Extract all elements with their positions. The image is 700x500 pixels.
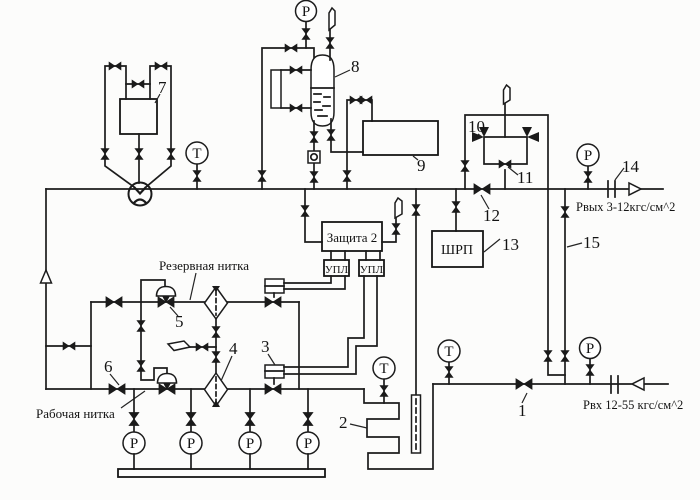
safety valve right	[522, 127, 539, 142]
filter F1 top cap	[212, 286, 220, 292]
leader to bypass	[567, 243, 582, 247]
valve drain upper	[310, 132, 318, 143]
wire: relief center stem	[504, 115, 506, 137]
wire: working line y=389	[46, 388, 364, 390]
orifice box on drain	[308, 151, 320, 163]
svg-text:11: 11	[517, 168, 533, 187]
wire: drop 4 to manifold	[307, 454, 309, 469]
filter F1 inner dashes	[215, 291, 217, 315]
gauge T3	[438, 340, 460, 362]
valve under T2	[380, 386, 388, 397]
valve on drop	[343, 171, 351, 182]
valve on tap	[301, 206, 309, 217]
wire: vertical x=91 reserve to working	[90, 302, 92, 389]
valve gauge drop 2	[186, 413, 196, 426]
valve on riser	[258, 171, 266, 182]
svg-text:Р: Р	[586, 341, 594, 357]
valve upper right bypass	[561, 207, 569, 218]
wire: purge stub y=347	[189, 346, 216, 348]
box UPL right	[359, 260, 384, 276]
valve lower right bypass	[561, 351, 569, 362]
insulating joint 14	[608, 181, 615, 197]
svg-text:Т: Т	[192, 146, 201, 162]
valve upper on filter column	[212, 327, 220, 338]
leader to valve 12	[481, 195, 489, 209]
gauge T2	[373, 357, 395, 379]
svg-text:УПЛ: УПЛ	[325, 264, 349, 276]
wire: left riser from outlet header down to working line	[45, 189, 47, 389]
svg-text:4: 4	[229, 339, 238, 358]
leader to 5	[170, 307, 178, 316]
svg-text:Рвх 12-55 кгс/см^2: Рвх 12-55 кгс/см^2	[583, 398, 683, 412]
regulator 5 dome	[157, 287, 176, 304]
insulating joint inlet	[611, 376, 618, 393]
svg-text:Т: Т	[444, 344, 453, 360]
regulator 5 valve body	[158, 297, 174, 307]
actuator box on reserve shutoff	[265, 279, 284, 297]
valve 1 on inlet	[516, 379, 532, 389]
wire: drop 3 to manifold	[249, 454, 251, 469]
wire: relief loop	[484, 137, 527, 189]
leader to reserve line	[190, 273, 196, 300]
relief vent candle	[504, 85, 511, 104]
shutoff valve on reserve line (UPL)	[265, 297, 281, 307]
svg-text:1: 1	[518, 401, 527, 420]
valve top-right of box7	[155, 62, 167, 70]
valve 12 on header	[474, 184, 490, 194]
wire: box7 left branch	[105, 66, 134, 187]
valve on center drop	[135, 149, 143, 160]
gauge P manifold 4	[297, 432, 319, 454]
valve on crossover	[63, 342, 75, 350]
valve lower on pilot drop	[137, 361, 145, 372]
wire: tap to Zashchita box	[305, 189, 322, 242]
svg-text:Рабочая нитка: Рабочая нитка	[36, 406, 115, 421]
wire: stubs Zashchita to UPL left	[331, 251, 345, 260]
wire: inlet header y=384	[433, 383, 631, 385]
wire: column between filters x=216	[215, 319, 217, 374]
node: flow arrow up on left riser	[41, 270, 52, 283]
gauge P outlet stem	[587, 166, 589, 189]
filter F1 diamond on reserve line	[205, 287, 228, 319]
gauge P vessel	[296, 1, 317, 22]
vessel vent stem	[329, 30, 331, 60]
wire: bypass right x=565	[564, 189, 566, 384]
valve on vessel top line	[285, 44, 297, 52]
gauge T1 stem	[196, 164, 198, 189]
leader to working line	[121, 391, 145, 408]
wire: bypass left x=548	[548, 189, 565, 375]
svg-text:Р: Р	[187, 436, 195, 452]
svg-text:6: 6	[104, 357, 113, 376]
valve left drop of box7	[101, 149, 109, 160]
box 7	[120, 99, 157, 134]
wire: gauge drop 1	[133, 389, 135, 432]
gauge P manifold 2	[180, 432, 202, 454]
valve under T3	[445, 367, 453, 378]
wire: box7 center drop	[138, 134, 140, 183]
svg-text:Р: Р	[246, 436, 254, 452]
gauge P inlet	[580, 338, 601, 359]
svg-text:Защита 2: Защита 2	[327, 230, 378, 245]
box 9	[363, 121, 438, 155]
wire: drop 1 to manifold	[133, 454, 135, 469]
svg-text:8: 8	[351, 57, 360, 76]
meter bottom arch	[134, 200, 147, 204]
wire: relief riser x=465	[465, 115, 548, 189]
gas meter circle on header	[129, 183, 152, 206]
gauge T3 stem	[448, 362, 450, 384]
safety valve left	[472, 127, 489, 142]
vessel liquid dashes	[314, 94, 330, 116]
wire: UPL left cable pair to reserve actuator	[284, 276, 345, 289]
svg-text:Р: Р	[302, 4, 310, 20]
vent candle of vessel	[329, 8, 335, 30]
wire: pilot loop of regulator 5	[141, 280, 165, 302]
svg-text:9: 9	[417, 156, 426, 175]
valve on relief riser	[461, 161, 469, 172]
svg-text:Т: Т	[379, 361, 388, 377]
gauge T1	[186, 142, 208, 164]
leader to box 9	[413, 156, 418, 160]
svg-text:14: 14	[622, 157, 640, 176]
valve gauge drop 3	[245, 413, 255, 426]
relief candle stem	[504, 104, 506, 115]
leader to valve 1	[522, 393, 527, 403]
gauge P manifold 3	[239, 432, 261, 454]
gauge T2 stem	[383, 379, 385, 403]
svg-text:Р: Р	[130, 436, 138, 452]
vessel liquid level	[311, 87, 334, 89]
shutoff valve on working line (3)	[265, 384, 281, 394]
valve 6 on working line	[109, 384, 125, 394]
wire: box7 right branch	[146, 66, 171, 187]
gauge P manifold 1	[123, 432, 145, 454]
level gauge tube	[271, 70, 281, 108]
thermowell dashed axis	[415, 399, 417, 450]
leader to valve 11	[508, 167, 518, 175]
leader to heater	[350, 424, 367, 428]
wire: box7 crossover	[126, 83, 150, 85]
wire: pilot drop x=141 with jog to regulator 6	[141, 302, 167, 380]
bypass valve a	[350, 96, 362, 104]
wire: gauge drop 4	[307, 389, 309, 432]
box UPL left	[324, 260, 349, 276]
wire: reserve right end drop x=299	[298, 302, 300, 389]
svg-text:15: 15	[583, 233, 600, 252]
valve lower left bypass	[544, 351, 552, 362]
svg-text:Резервная нитка: Резервная нитка	[159, 258, 249, 273]
wire: drop to header x=347	[346, 152, 348, 189]
leader to vessel 8	[335, 70, 350, 77]
purge pennant	[168, 341, 190, 351]
bypass valve b	[360, 96, 372, 104]
valve drain lower	[310, 172, 318, 183]
gauge P outlet	[577, 144, 599, 166]
flow arrow outlet	[629, 183, 641, 195]
valve 11 on loop bottom	[499, 160, 511, 168]
svg-text:Р: Р	[304, 436, 312, 452]
valve on bottom tap	[290, 104, 302, 112]
valve gauge drop 1	[129, 413, 139, 426]
svg-text:ШРП: ШРП	[441, 243, 473, 258]
valve under P outlet	[584, 172, 592, 183]
valve on reserve line inlet	[106, 297, 122, 307]
leader to joint 14	[615, 168, 624, 180]
wire: vessel left drain	[313, 121, 315, 189]
valve on right drain	[327, 130, 335, 141]
wire: UPL right cable pair to working actuator	[284, 276, 377, 374]
svg-text:13: 13	[502, 235, 519, 254]
leader to actuator 3	[268, 354, 275, 365]
leader to valve 6	[110, 374, 119, 385]
wire: bypass loop to box 9	[347, 100, 372, 152]
flow arrow inlet	[632, 378, 644, 390]
valve on top tap	[290, 66, 302, 74]
wire: level gauge bottom tap	[281, 107, 311, 109]
wire: vessel right drain	[331, 119, 363, 152]
manifold bar	[118, 469, 325, 477]
leader to filter F2	[221, 356, 232, 381]
wire: stubs Zashchita to UPL right	[366, 251, 380, 260]
valve gauge drop 4	[303, 413, 313, 426]
valve lower on filter column	[212, 352, 220, 363]
wire: outlet tail after arrow	[641, 188, 663, 190]
gauge P inlet stem	[589, 359, 591, 384]
valve upper on pilot drop	[137, 321, 145, 332]
valve under T1	[193, 171, 201, 182]
filter F2 inner dashes	[215, 377, 217, 401]
box Защита 2	[322, 222, 382, 251]
svg-text:Р: Р	[584, 148, 592, 164]
regulator 6 valve body	[159, 384, 175, 394]
svg-text:2: 2	[339, 413, 348, 432]
valve under P vessel	[302, 29, 310, 40]
svg-text:Рвых 3-12кгс/см^2: Рвых 3-12кгс/см^2	[576, 200, 675, 214]
wire: gauge drop 3	[249, 389, 251, 432]
wire: impulse line x=416	[415, 189, 417, 395]
vent candle of Zashchita	[395, 198, 402, 218]
gauge P vessel stem	[305, 21, 307, 48]
regulator 6 dome	[158, 374, 177, 391]
leader to box 7	[155, 94, 160, 103]
wire: level gauge top tap	[281, 69, 311, 71]
valve on vent	[392, 224, 400, 235]
actuator box 3 on working shutoff	[265, 365, 284, 384]
valve on impulse line	[412, 205, 420, 216]
svg-text:12: 12	[483, 206, 500, 225]
wire: reserve line y=302	[91, 301, 299, 303]
valve under P inlet	[586, 365, 594, 376]
wire: riser x=262 to top line	[262, 48, 314, 189]
valve right drop of box7	[167, 149, 175, 160]
thermowell tube	[412, 395, 421, 453]
leader to ShRP	[484, 239, 500, 252]
valve on ShRP tap	[452, 202, 460, 213]
vessel 8 shell	[311, 55, 334, 126]
leader to safety valve	[478, 134, 482, 137]
filter F2 diamond on working line	[205, 373, 228, 406]
wire: inlet tail	[644, 383, 668, 385]
svg-text:3: 3	[261, 337, 270, 356]
wire: Zashchita vent	[382, 218, 396, 242]
valve on vessel vent	[326, 38, 334, 49]
svg-text:10: 10	[468, 117, 485, 136]
wire: drop 2 to manifold	[190, 454, 192, 469]
wire: heater meander	[364, 384, 433, 469]
wire: tap to ShRP	[455, 189, 457, 231]
valve on box7 crossover	[132, 80, 144, 88]
wire: main outlet header y=189	[46, 188, 629, 190]
filter F2 bottom cap	[212, 400, 220, 407]
box ШРП	[432, 231, 483, 267]
meter top chevron	[134, 187, 146, 194]
wire: gauge drop 2	[190, 389, 192, 432]
svg-text:УПЛ: УПЛ	[360, 264, 384, 276]
valve top-left of box7	[109, 62, 121, 70]
purge valve	[196, 343, 208, 351]
wire: crossover y=346 left riser to x91	[46, 345, 91, 347]
